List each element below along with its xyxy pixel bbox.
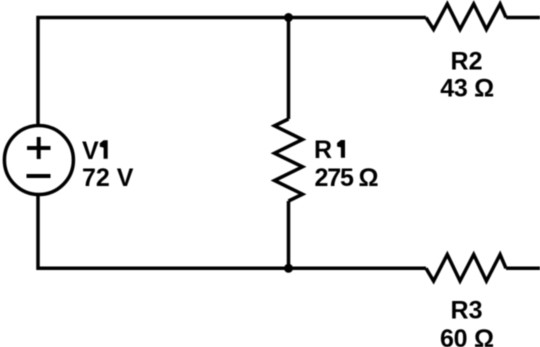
wire R2 right lead — [506, 16, 540, 20]
svg-text:275 Ω: 275 Ω — [315, 164, 379, 192]
svg-text:43 Ω: 43 Ω — [440, 74, 494, 102]
wire R3 right lead — [506, 267, 540, 271]
svg-text:72 V: 72 V — [82, 164, 134, 192]
wire top node to R1 — [287, 18, 291, 120]
V1 plus sign — [27, 137, 51, 159]
svg-text:R3: R3 — [451, 297, 483, 325]
svg-text:R: R — [314, 136, 332, 164]
resistor R3 (zigzag) — [426, 255, 506, 282]
svg-text:V: V — [82, 137, 99, 165]
resistor R2 (zigzag) — [426, 4, 506, 30]
node dot: top junction — [284, 13, 293, 22]
wire bottom rail (V1 - to R3 left) — [38, 195, 426, 269]
svg-text:R2: R2 — [451, 48, 483, 76]
wire R1 to bottom node — [287, 201, 291, 268]
V1 minus sign — [27, 174, 51, 178]
node dot: bottom junction — [284, 264, 293, 273]
voltage source V1 (circle) — [4, 126, 73, 195]
resistor R1 (zigzag) — [275, 119, 303, 201]
svg-text:60 Ω: 60 Ω — [440, 325, 494, 347]
wire top rail (V1 + to R2 left) — [38, 18, 426, 127]
